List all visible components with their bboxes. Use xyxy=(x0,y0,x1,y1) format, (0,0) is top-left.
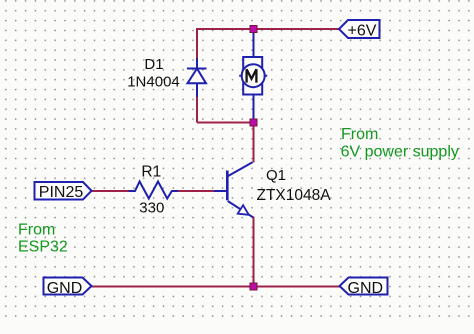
svg-text:GND: GND xyxy=(348,280,384,297)
svg-text:GND: GND xyxy=(47,280,83,297)
svg-text:330: 330 xyxy=(139,200,164,217)
wire: bottom of flyback loop xyxy=(197,122,254,124)
transistor Q1 xyxy=(214,162,253,217)
wire: PIN25 to resistor xyxy=(92,190,131,192)
junction below motor xyxy=(250,119,257,126)
svg-text:ZTX1048A: ZTX1048A xyxy=(257,187,332,204)
ground flag right GND xyxy=(340,278,388,295)
wire: emitter vertical down to ground rail xyxy=(253,217,255,287)
svg-text:1N4004: 1N4004 xyxy=(127,74,180,91)
svg-text:D1: D1 xyxy=(144,56,163,73)
wire: ground rail xyxy=(92,286,340,288)
wire: left loop below diode xyxy=(196,95,198,123)
svg-text:ESP32: ESP32 xyxy=(18,238,68,255)
svg-text:From: From xyxy=(341,126,378,143)
svg-text:R1: R1 xyxy=(141,164,161,181)
junction on ground rail xyxy=(250,283,257,290)
wire: top rail from left loop corner to +6V flag xyxy=(197,29,339,60)
svg-text:+6V: +6V xyxy=(348,23,377,40)
motor letter M xyxy=(247,69,257,82)
power flag +6V xyxy=(339,20,380,38)
net label PIN25 xyxy=(35,182,92,200)
svg-text:From: From xyxy=(18,222,55,239)
wire: collector vertical from lower junction xyxy=(253,123,255,163)
svg-text:Q1: Q1 xyxy=(266,167,286,184)
wire: resistor to transistor base xyxy=(177,190,216,192)
ground flag left GND xyxy=(44,278,92,295)
motor M (component) xyxy=(239,29,267,123)
junction at top rail xyxy=(250,26,257,33)
svg-text:6V power supply: 6V power supply xyxy=(341,144,459,161)
svg-text:PIN25: PIN25 xyxy=(39,184,84,201)
diode D1 xyxy=(187,58,207,97)
resistor R1 xyxy=(129,182,178,199)
